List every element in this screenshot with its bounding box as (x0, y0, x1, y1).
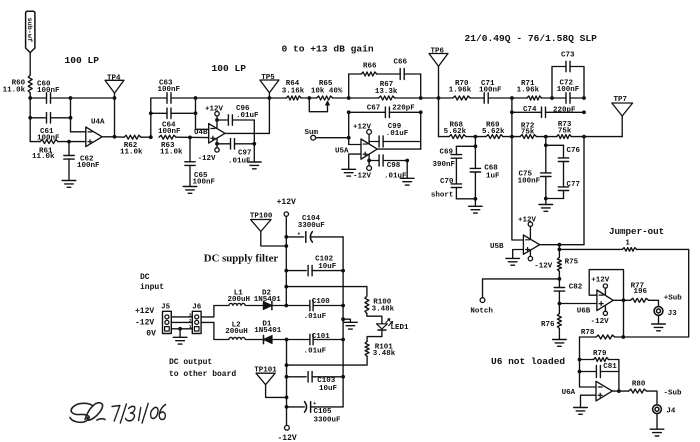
inductor L2 (229, 337, 245, 339)
svg-text:C82: C82 (569, 283, 583, 291)
trimmer R65 (317, 96, 333, 100)
op-amp U6B (597, 290, 613, 311)
jumper Jumper-out 1 (559, 248, 622, 250)
junction C100 right (341, 304, 345, 308)
wire R64-R65 (301, 97, 317, 99)
junction C97 tap (215, 142, 219, 146)
wire stage2 line1 right (171, 97, 196, 99)
ground U5B plus (506, 257, 520, 259)
junction C98 tap (367, 159, 371, 163)
signature SL 7/31/06 (70, 403, 166, 423)
junction C74 right (582, 110, 586, 114)
wire C82 to U6B plus (559, 303, 597, 305)
wire U5B plus to ground (513, 250, 524, 258)
svg-text:J3: J3 (668, 310, 678, 318)
capacitor C66 (399, 69, 401, 80)
junction R69/R72/C74 (510, 135, 514, 139)
capacitor C65 (189, 137, 191, 161)
svg-text:TP101: TP101 (254, 367, 277, 375)
capacitor C60 (46, 93, 48, 103)
svg-text:0V: 0V (146, 330, 156, 339)
svg-text:100nF: 100nF (37, 87, 60, 95)
wire R75 stub (558, 245, 560, 258)
junction C76 tap (544, 143, 548, 147)
wire D2 to +12V rail (273, 305, 286, 307)
svg-text:J6: J6 (192, 303, 202, 311)
connector J6 (192, 311, 201, 333)
junction C72 left (550, 96, 554, 100)
power -12V U5B (529, 251, 531, 256)
svg-text:R76: R76 (541, 321, 555, 329)
wire ladder left vertical (438, 98, 440, 137)
svg-text:R66: R66 (363, 62, 377, 70)
svg-text:+12V: +12V (205, 106, 224, 114)
inductor L1 (229, 303, 245, 305)
wire C68 branch (474, 137, 476, 147)
ground J4 (656, 414, 658, 429)
junction C74 line (510, 110, 514, 114)
wire line2 right (51, 117, 71, 119)
capacitor C77 (563, 162, 565, 187)
junction ladder out (582, 135, 586, 139)
svg-text:U5B: U5B (490, 243, 504, 251)
wire LED to R101 (367, 331, 382, 342)
ground C68 (474, 199, 476, 206)
junction main/C74 vertical (510, 96, 514, 100)
resistor R66 (361, 72, 377, 76)
junction jumper tap (558, 248, 562, 252)
wire stage2 line1 left (151, 97, 167, 99)
junction C69 tap (474, 144, 478, 148)
junction summing node (347, 96, 351, 100)
svg-text:-12V: -12V (198, 155, 217, 163)
wire U5A output (377, 148, 420, 150)
power +12V U4B (215, 112, 219, 116)
wire R78 to U6A (580, 337, 597, 387)
junction C82/R76 (558, 302, 562, 306)
svg-text:C67: C67 (367, 104, 381, 112)
junction C101 left (285, 338, 289, 342)
svg-text:1uF: 1uF (486, 173, 500, 181)
test point TP4 (105, 80, 124, 93)
svg-text:short: short (431, 191, 454, 199)
junction C68 bottom (474, 197, 478, 201)
power -12V U5A (368, 154, 370, 166)
resistor R100 (365, 296, 369, 314)
svg-text:2: 2 (189, 318, 192, 324)
junction C105 left (285, 405, 289, 409)
svg-text:100 LP: 100 LP (212, 63, 247, 74)
capacitor C70 (455, 158, 457, 184)
resistor R69 (486, 135, 503, 139)
svg-text:3: 3 (189, 313, 192, 319)
feedback loop R66+C66 (348, 74, 350, 98)
wire line1 right (51, 97, 115, 99)
svg-text:1: 1 (625, 239, 630, 247)
LED LED1 (377, 324, 388, 329)
svg-text:.01uF: .01uF (304, 313, 327, 321)
capacitor C100 (286, 305, 309, 307)
junction C67 left (347, 110, 351, 114)
capacitor C61 (46, 113, 48, 123)
capacitor C72 (552, 97, 566, 99)
svg-text:100nF: 100nF (77, 162, 100, 170)
svg-text:75k: 75k (521, 128, 535, 136)
svg-text:3300uF: 3300uF (298, 222, 326, 230)
junction C64/minus vertical (194, 111, 198, 115)
svg-text:5.62k: 5.62k (444, 128, 467, 136)
capacitor C62 (68, 142, 70, 156)
capacitor C68 (474, 146, 476, 168)
wire U5A plus to ground (349, 154, 361, 169)
svg-text:+12V: +12V (277, 198, 296, 207)
svg-text:13.3k: 13.3k (375, 88, 398, 96)
wire U4B output (225, 132, 269, 134)
svg-text:.01uF: .01uF (384, 172, 407, 180)
svg-text:TP6: TP6 (431, 48, 445, 56)
wire C74 vertical (511, 98, 513, 137)
wire ground rail vertical (342, 237, 344, 407)
wire R77 to J3 (649, 300, 659, 306)
junction line2 right (69, 116, 73, 120)
junction R78 line (621, 335, 625, 339)
test point TP5 (260, 80, 279, 93)
junction TP100 tap (284, 244, 288, 248)
capacitor C73 loop (552, 67, 566, 99)
resistor R73 (557, 135, 572, 139)
wire vertical C60/C61 to U4A minus (70, 98, 72, 132)
svg-text:10k 40%: 10k 40% (311, 87, 343, 95)
wire J5-J6 0V (171, 328, 192, 330)
wire D1 to -12V rail (272, 339, 286, 341)
capacitor C103 (287, 376, 307, 378)
resistor R78 (615, 336, 624, 338)
op-amp U4A (86, 127, 102, 147)
resistor R80 (629, 389, 647, 393)
svg-text:to other board: to other board (169, 370, 236, 379)
resistor R101 (365, 341, 369, 356)
svg-text:C105: C105 (314, 408, 333, 416)
wire C66 right (404, 73, 420, 75)
wire line1 left (30, 97, 46, 99)
junction C101 right (341, 338, 345, 342)
wire U5B minus vertical (512, 137, 524, 240)
junction TP101 tap (285, 396, 289, 400)
wire R65 to summing node (333, 97, 349, 99)
op-amp U4B (209, 124, 225, 144)
junction C72 right (582, 96, 586, 100)
svg-text:1N5401: 1N5401 (254, 327, 282, 335)
test point TP101 (256, 373, 275, 385)
resistor R79 (580, 359, 594, 361)
junction C96 tap (215, 118, 219, 122)
wire Sum to minus (316, 137, 349, 139)
svg-text:C97: C97 (238, 150, 252, 158)
capacitor C81 (580, 371, 597, 373)
junction C104 left (284, 235, 288, 239)
wire R101 to -12V line (287, 356, 368, 365)
svg-text:1.96k: 1.96k (517, 86, 540, 94)
svg-text:R75: R75 (565, 259, 579, 267)
resistor R61 (30, 141, 40, 143)
capacitor C67 line (349, 111, 386, 113)
wire U4A feedback vertical (114, 98, 116, 137)
wire line2 left (30, 117, 46, 119)
wire stage2 line2 right (171, 112, 196, 114)
wire C96 to ground rail (253, 120, 255, 144)
svg-text:U5A: U5A (335, 148, 349, 156)
capacitor C105 (287, 406, 305, 408)
wire LED +12V line (286, 287, 367, 296)
junction feedback/line1 (113, 96, 117, 100)
net Sum (311, 135, 316, 140)
test point TP6 (429, 54, 448, 67)
junction ground tap (341, 317, 345, 321)
svg-text:TP100: TP100 (250, 213, 273, 221)
power +12V U5B (528, 222, 532, 226)
ground U6A plus (574, 407, 588, 409)
svg-text:390nF: 390nF (433, 161, 456, 169)
svg-text:C103: C103 (317, 377, 336, 385)
svg-text:3.16k: 3.16k (282, 87, 305, 95)
wire R66-C66 (377, 73, 400, 75)
power -12V U6B (604, 306, 606, 311)
svg-text:75k: 75k (558, 127, 572, 135)
svg-text:100nF: 100nF (193, 179, 216, 187)
junction R75 bottom (558, 277, 562, 281)
capacitor C82 (558, 279, 560, 288)
wire U4B feedback vertical (268, 98, 270, 133)
svg-text:C73: C73 (561, 51, 575, 59)
wire L1 to D2 (246, 305, 263, 307)
svg-text:C69: C69 (440, 148, 454, 156)
wire U6B output (613, 299, 623, 301)
junction R75 top (558, 243, 562, 247)
wire J5-J6 -12V (171, 321, 192, 323)
ground C96/C97 (253, 144, 255, 162)
ground J3 (658, 315, 660, 323)
capacitor C74 line (512, 111, 542, 113)
svg-text:R78: R78 (581, 329, 595, 337)
svg-text:R79: R79 (593, 350, 607, 358)
capacitor C98 (369, 160, 379, 162)
wire U6A output (613, 390, 629, 392)
junction C103 left (285, 375, 289, 379)
svg-text:U6B: U6B (577, 308, 591, 316)
svg-text:+12V: +12V (353, 124, 372, 132)
svg-text:+12V: +12V (135, 307, 154, 316)
junction R79 tap (578, 358, 582, 362)
svg-text:11.0k: 11.0k (32, 153, 55, 161)
svg-text:U4B: U4B (194, 129, 208, 137)
svg-text:5.62k: 5.62k (482, 128, 505, 136)
resistor R64 (286, 96, 301, 100)
capacitor C104 (286, 236, 304, 238)
svg-text:1N5401: 1N5401 (254, 296, 282, 304)
svg-text:C68: C68 (484, 165, 498, 173)
svg-text:input: input (140, 283, 164, 292)
svg-text:100nF: 100nF (479, 86, 502, 94)
svg-text:11.0k: 11.0k (160, 149, 183, 157)
capacitor C102 (286, 270, 306, 272)
capacitor C99 (369, 141, 379, 143)
junction C98/ground (405, 159, 409, 163)
ground R76 (553, 339, 567, 341)
svg-text:TP5: TP5 (261, 74, 275, 82)
svg-text:3300uF: 3300uF (314, 416, 342, 424)
op-amp U6A (596, 381, 612, 401)
jack J4 (653, 405, 662, 414)
test point TP7 (612, 103, 633, 116)
svg-text:C76: C76 (567, 147, 581, 155)
svg-text:-12V: -12V (278, 434, 297, 442)
junction LED return (285, 363, 289, 367)
junction C67 right (419, 110, 423, 114)
wire sub-wf to R60 (29, 53, 31, 75)
svg-text:-12V: -12V (135, 318, 154, 327)
svg-text:-12V: -12V (591, 318, 610, 326)
junction TP5 node (268, 96, 272, 100)
capacitor C101 (287, 339, 310, 341)
power -12V U4B (216, 138, 218, 148)
svg-text:+12V: +12V (591, 277, 610, 285)
junction U4A output (113, 135, 117, 139)
capacitor C69 (455, 146, 457, 154)
resistor R68 (439, 136, 450, 138)
svg-text:.01uF: .01uF (236, 112, 259, 120)
svg-text:196: 196 (634, 288, 648, 296)
connector sub-wf (26, 11, 35, 52)
svg-text:C66: C66 (394, 59, 408, 67)
junction C97/ground (252, 142, 256, 146)
resistor R77 (624, 299, 631, 301)
wire R80 to J4 (647, 391, 658, 405)
svg-text:C81: C81 (603, 363, 617, 371)
svg-text:TP7: TP7 (614, 96, 628, 104)
svg-text:11.0k: 11.0k (120, 149, 143, 157)
junction R67 right (419, 96, 423, 100)
wire stage2 line2 left (151, 112, 167, 114)
node stage1 input (28, 96, 32, 100)
junction line2 left (28, 116, 32, 120)
junction R72/R73/C75 (544, 135, 548, 139)
svg-text:10uF: 10uF (318, 263, 337, 271)
wire L2 to D1 (246, 339, 263, 341)
resistor R67 (379, 96, 395, 100)
power +12V U5A (367, 130, 372, 135)
svg-text:sub-wf: sub-wf (25, 18, 33, 42)
junction R68/C68 (466, 136, 486, 138)
wire U6B feedback (589, 270, 623, 301)
wire C75 branch (545, 137, 547, 146)
svg-text:DC output: DC output (169, 358, 212, 367)
wire U6A plus to ground (581, 395, 597, 407)
svg-text:10uF: 10uF (319, 385, 338, 393)
svg-text:220pF: 220pF (392, 104, 415, 112)
svg-text:LED1: LED1 (391, 324, 410, 332)
resistor R60 (28, 75, 32, 93)
junction R64/R65 (307, 96, 311, 100)
power -12V rail (285, 425, 290, 430)
svg-text:C70: C70 (440, 178, 454, 186)
op-amp U5A (361, 139, 377, 159)
svg-text:Jumper-out: Jumper-out (609, 226, 664, 237)
svg-text:C77: C77 (567, 181, 581, 189)
resistor R70 (439, 97, 453, 99)
junction C102 left (284, 269, 288, 273)
svg-text:11.0k: 11.0k (3, 87, 26, 95)
capacitor C75 (545, 145, 547, 173)
wire R100 to LED (367, 314, 382, 324)
junction D2/C100 (284, 304, 288, 308)
svg-text:220pF: 220pF (553, 107, 576, 115)
capacitor C64 (166, 108, 168, 118)
svg-text:-Sub: -Sub (664, 389, 683, 397)
svg-text:C101: C101 (312, 333, 331, 341)
svg-text:200uH: 200uH (228, 296, 251, 304)
junction TP6 node (437, 96, 441, 100)
wire TP7 line (584, 136, 622, 138)
resistor R76 (558, 304, 560, 314)
svg-text:Notch: Notch (470, 308, 493, 316)
ground C75 (545, 199, 547, 205)
wire vertical left stage2 (150, 98, 152, 137)
svg-text:DC: DC (140, 273, 150, 282)
svg-text:+12V: +12V (518, 217, 537, 225)
svg-text:R80: R80 (632, 381, 646, 389)
resistor R75 (557, 257, 561, 271)
svg-text:TP4: TP4 (107, 74, 121, 82)
wire U6B out to R78 line (623, 300, 625, 337)
ground DC filter (343, 319, 350, 322)
junction U6A output (617, 389, 621, 393)
svg-text:1.96k: 1.96k (449, 86, 472, 94)
ground C98 (406, 161, 408, 178)
junction Sum tap (347, 136, 351, 140)
junction U6B output (622, 298, 626, 302)
svg-text:3.48k: 3.48k (372, 306, 395, 314)
resistor R71 (527, 96, 542, 100)
svg-text:100nF: 100nF (518, 177, 541, 185)
resistor R63 (159, 135, 176, 139)
svg-text:3.48k: 3.48k (373, 350, 396, 358)
wire vertical left stage1 (29, 98, 31, 142)
junction C75 bottom (544, 197, 548, 201)
svg-text:.01uF: .01uF (304, 348, 327, 356)
wire main line stage2 to TP5 (196, 97, 270, 99)
wire TP5 to R64 (269, 97, 286, 99)
wire U4A output (102, 136, 114, 138)
wire -12V rail vertical (286, 340, 288, 426)
resistor R62 (115, 136, 125, 138)
R65 wiper arrow (326, 101, 330, 105)
junction R63/C65 (188, 136, 192, 140)
junction R61/C62 (67, 140, 71, 144)
connector J5 (163, 311, 172, 333)
wire J6 to L1 (201, 306, 229, 317)
power +12V U6B (603, 284, 607, 288)
svg-text:J4: J4 (666, 407, 676, 415)
wire vertical to U4B minus (195, 98, 197, 129)
svg-text:200uH: 200uH (225, 328, 248, 336)
capacitor C96 (217, 119, 228, 121)
junction 0V ground (178, 327, 182, 331)
svg-text:100nF: 100nF (158, 86, 181, 94)
wire summing vertical (348, 112, 350, 144)
junction LED line left (284, 285, 288, 289)
test point TP100 (251, 220, 271, 232)
capacitor C76 (563, 145, 565, 158)
